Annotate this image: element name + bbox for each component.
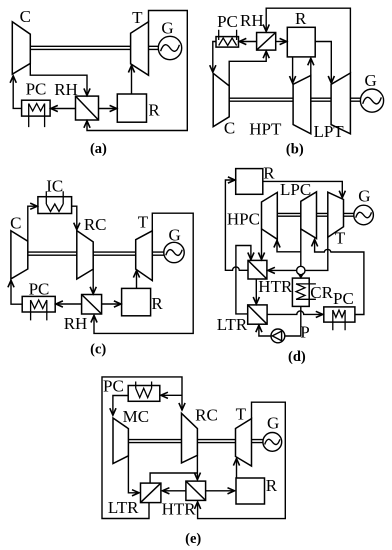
recuperator LTR (d) [248,305,267,324]
compressor C (c) [11,231,28,279]
svg-text:LPT: LPT [313,122,344,141]
turbine T (d) [328,192,344,237]
wire node to HTR hot inlet (d) [268,269,297,271]
generator G (b) [360,89,383,112]
wire PC to C inlet (c) [11,280,22,304]
generator G (d) [354,205,374,225]
svg-text:PC: PC [217,12,238,31]
shaft C-T (a) [30,46,130,49]
svg-text:(a): (a) [90,141,107,157]
svg-text:LTR: LTR [108,498,139,517]
wire RH to PC (c) [56,303,82,305]
wire HTR cold out to R (d) with hop [225,180,248,270]
svg-text:RH: RH [64,314,88,333]
svg-text:MC: MC [123,407,149,426]
compressor C (b) [213,73,229,126]
shaft RC-T (e) [197,440,235,443]
wire R to T inlet (c) [136,270,138,288]
shaft T-G (c) [152,252,164,255]
wire pump to LTR bottom (d) [259,325,272,336]
shaft C-RC (c) [28,252,77,255]
shaft T-G (d) [344,213,354,216]
reactor R (c) [122,288,151,315]
precooler PC (c) [22,296,55,320]
wire HPT exhaust to R reheat (b) [310,58,312,75]
wire IC to RC inlet (c) [72,206,77,230]
wire turbine exhaust loop (e): T top to HTR bottom [198,402,286,518]
wire R to T inlet (a) [131,65,133,94]
wire LTR hot out to PC (d) with hop [267,311,323,314]
svg-text:CR: CR [310,283,333,302]
svg-text:G: G [161,19,173,38]
svg-text:(d): (d) [288,349,306,365]
svg-text:HTR: HTR [258,277,293,296]
recuperator RH (c) [82,295,102,315]
compressor C (a) [12,22,30,74]
reactor R (a) [117,94,146,122]
wire R to T inlet (e) [236,458,238,478]
svg-text:T: T [236,404,247,423]
shaft RC-T (c) [93,252,136,255]
wire HTR hot out to LTR (e) [162,490,186,492]
svg-text:T: T [132,8,143,27]
svg-text:HPT: HPT [249,120,282,139]
wire HTR hot out to LTR top (d) [255,279,257,304]
wire R to T inlet (d) [263,181,343,198]
reactor R (e) [236,478,265,504]
turbine T (c) [136,231,153,281]
svg-text:R: R [151,294,163,313]
svg-text:HPC: HPC [227,209,260,228]
wire C outlet to RH top (a) [30,63,87,95]
wire LTR hot out loop to split and RC inlet (e) [102,377,182,519]
svg-text:PC: PC [29,279,50,298]
node split circle (d) [297,266,305,274]
recuperator RH (a) [76,96,99,120]
shaft T-G (e) [252,440,263,443]
recuperator HTR (d) [248,260,267,279]
wire LPT exhaust to RH top (b) [266,8,350,73]
cooler CR (d) [292,278,316,306]
svg-text:G: G [358,186,370,205]
wire PC to C inlet (b) [213,42,216,73]
wire HPC outlet to HTR top (d) [261,229,263,260]
wire LTR cold out to HTR top (d) [236,246,251,314]
generator G (e) [263,433,282,452]
shaft LPC-T (d) [317,213,328,216]
wire LPC outlet down to node (d) [300,229,302,266]
wire C outlet to IC (c) [28,206,38,241]
compressor HPC (d) [262,192,278,239]
wire CR to pump (d) [284,306,301,336]
wire turbine exhaust loop (a): T top to RH bottom [87,11,187,131]
recompressor RC (e) [182,413,198,463]
shaft HPT-LPT (b) [311,98,331,101]
shaft LPT-G (b) [350,98,360,101]
shaft T-G (a) [149,46,159,49]
wire LTR cold out to merge (e) [150,473,197,483]
wire turbine exhaust loop (c): T top to RH bottom [94,213,193,333]
svg-text:HTR: HTR [162,500,197,519]
svg-text:IC: IC [46,177,63,196]
wire PC return to LPC inlet (d) with hop [315,239,364,314]
recuperator RH (b) [257,33,276,51]
precooler PC (a) [22,100,50,127]
svg-text:C: C [224,119,235,138]
wire HTR cold out to R (e) [206,490,235,492]
svg-text:RH: RH [240,11,264,30]
wire R to LPT inlet (b) [315,42,331,84]
wire MC outlet to LTR (e) [128,456,139,493]
wire PC to C inlet (a) [13,76,21,109]
generator G (c) [164,242,184,262]
svg-text:PC: PC [26,79,47,98]
svg-text:(e): (e) [185,531,201,547]
compressor LPC (d) [301,192,317,239]
turbine HPT (b) [293,76,311,134]
wire RH to R (b) [276,41,287,43]
turbine LPT (b) [331,73,350,134]
precooler PC (e) [128,382,160,402]
recompressor RC (c) [77,231,93,279]
wire RH to PC (b) [239,41,257,43]
wire RC outlet to RH top (c) [92,269,94,294]
svg-text:T: T [335,229,346,248]
svg-text:P: P [300,323,309,342]
svg-text:C: C [10,213,21,232]
wire RH to R (a) [99,108,117,110]
generator G (a) [158,36,181,59]
reactor R (b) [287,27,315,57]
svg-text:G: G [365,71,377,90]
svg-text:(c): (c) [90,342,106,358]
shaft C-HPT (b) [229,98,293,101]
shaft HPC-LPC (d) [277,213,301,216]
svg-text:RC: RC [84,215,107,234]
intercooler IC (c) [38,191,72,213]
compressor MC (e) [113,418,128,464]
wire split to PC (e) [161,394,182,396]
wire RH to PC (a) [51,108,76,110]
precooler PC (d) [324,307,355,330]
turbine T (e) [236,419,252,466]
recuperator LTR (e) [141,483,161,503]
svg-text:C: C [20,7,31,26]
svg-text:(b): (b) [286,141,304,157]
precooler PC (b) [216,30,239,47]
svg-text:PC: PC [103,377,124,396]
svg-text:RH: RH [54,80,78,99]
svg-text:RC: RC [195,406,218,425]
recuperator HTR (e) [186,481,206,500]
wire PC to MC inlet (e) [113,396,128,416]
wire T exhaust to node (d) [305,237,328,270]
svg-text:R: R [148,101,160,120]
wire RC outlet to HTR top (e) [196,455,198,480]
shaft MC-RC (e) [128,440,181,443]
wire node to CR (d) [300,275,302,278]
wire C outlet to RH bottom (b) [229,51,266,86]
svg-text:G: G [267,414,279,433]
svg-text:T: T [138,212,149,231]
svg-text:LPC: LPC [280,180,311,199]
reactor R (d) [236,169,263,195]
wire RH to R (c) [102,303,122,305]
wire node branch to HPC inlet (d) [277,240,301,252]
svg-text:LTR: LTR [217,315,248,334]
svg-text:R: R [266,476,278,495]
pump P (d) [271,329,285,343]
svg-text:R: R [263,163,275,182]
wire R to HPT inlet (b) [292,57,294,83]
svg-text:PC: PC [333,289,354,308]
svg-text:R: R [295,9,307,28]
turbine T (a) [131,22,149,76]
